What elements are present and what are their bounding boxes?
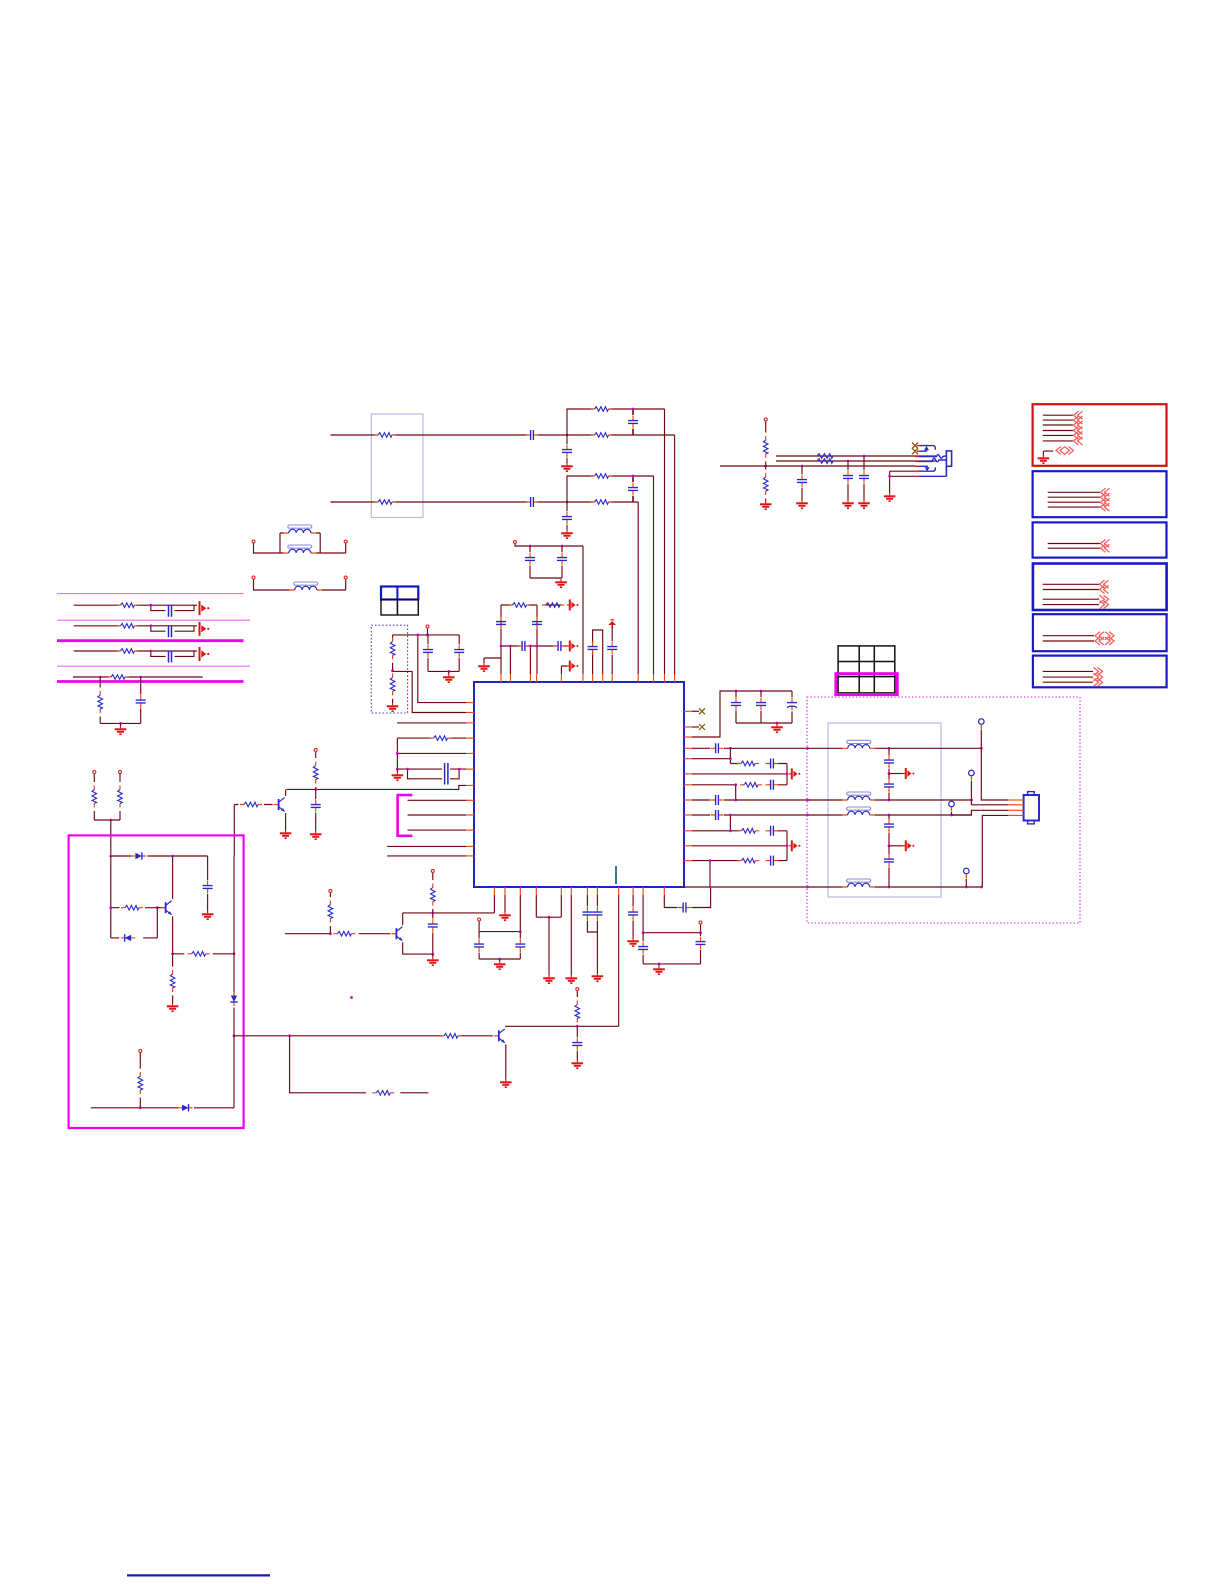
jack sleeve row (915, 475, 918, 477)
power pin VDD6 (576, 988, 579, 991)
capacitor C48 (169, 625, 172, 637)
node J1 (566, 434, 569, 437)
wire pin B10 (632, 895, 634, 907)
transistor Q1 (274, 798, 285, 812)
wire pin L8 (408, 799, 467, 801)
wire right vertical (233, 856, 235, 996)
bus line E (57, 680, 244, 683)
power pin VDD7 (431, 870, 434, 873)
capacitor C44 (863, 456, 865, 470)
resistor R7 (509, 603, 531, 608)
ground (499, 959, 501, 961)
power pin VDD9 (478, 918, 481, 921)
jack contact row1 (917, 445, 920, 447)
capacitor C6 shunt (566, 502, 568, 511)
capacitor C24 (628, 907, 638, 920)
wire xtal network (501, 605, 561, 674)
power arrow AVDD (608, 620, 616, 630)
resistor R35 (116, 624, 138, 629)
table 2x2 (381, 587, 418, 600)
reference divider dashed box (371, 625, 407, 713)
power pin VDD1 (514, 541, 517, 544)
wire cap bottoms (736, 722, 792, 724)
capacitor C16 (315, 789, 317, 799)
wire pin L12 (387, 855, 466, 857)
capacitor C37 (766, 856, 779, 866)
wire bus1 (981, 730, 1008, 801)
wire pin L11 (387, 845, 466, 847)
diode D4 (178, 1104, 193, 1111)
port P8 (199, 601, 201, 615)
wire diode row (111, 855, 208, 857)
resistor R32 (392, 635, 394, 640)
capacitor C17 (207, 856, 209, 880)
wire down (233, 1036, 235, 1108)
wire RC row G (692, 830, 787, 832)
resistor R18 (440, 1034, 462, 1039)
resistor R22 base (285, 933, 390, 935)
port P7 (889, 845, 903, 847)
ground (167, 1003, 179, 1011)
wire IC pin stubs left (466, 702, 474, 704)
inductor FB1 pair (252, 540, 255, 543)
wire base vertical (233, 805, 235, 857)
wire rc row 3 (74, 651, 197, 656)
test point TP1 (979, 719, 985, 729)
power pin VDD10 (699, 921, 702, 924)
ground (448, 671, 450, 674)
connector block J6 (blue) (1033, 656, 1167, 688)
inductor FB2 (284, 545, 316, 553)
connector block J2 (blue) (1033, 471, 1167, 517)
capacitor C15 big (445, 763, 448, 785)
power pin VDD8 (329, 890, 332, 893)
wire pin L4 (397, 738, 466, 769)
resistor R5 (591, 474, 613, 479)
wire pin B12 cap row (664, 887, 710, 908)
wire line1 row (567, 435, 675, 674)
inductor L2 (843, 792, 875, 800)
capacitor C39 (888, 774, 890, 780)
resistor R27 (737, 858, 759, 863)
resistor R28 (765, 422, 767, 433)
capacitor C2 (628, 416, 638, 429)
wire rc row 4 (73, 676, 203, 678)
wire Q3 emitter (505, 1044, 507, 1079)
wire vdd1 (515, 544, 583, 674)
wire line2 row (567, 502, 638, 674)
resistor R25 (740, 783, 762, 788)
ground (396, 769, 398, 772)
ground (566, 975, 578, 983)
wire row2 (808, 799, 972, 801)
resistor R17 (139, 1053, 141, 1069)
wire J4 signals (1043, 584, 1099, 604)
capacitor C27 (678, 903, 691, 913)
wire IC pin stubs bottom (493, 887, 495, 895)
capacitor C50 (140, 677, 142, 695)
jack tip contact (915, 456, 918, 458)
capacitor C4 (526, 497, 539, 507)
transistor Q2 (161, 901, 172, 915)
capacitor C12 (553, 641, 566, 651)
port P9 (199, 622, 201, 636)
wire rc row 1 (74, 605, 197, 610)
wire cap bottoms (530, 577, 562, 579)
test point TP4 (964, 868, 970, 878)
resistor R29 lower (765, 466, 767, 470)
wire Q4 collector (402, 913, 404, 925)
wire J2 signals (1048, 492, 1100, 507)
resistor R15 emitter (173, 953, 234, 955)
wire pin L7 long to Q1 (287, 785, 467, 789)
wire pin corner row (684, 886, 808, 888)
capacitor C14 (611, 625, 613, 641)
wire pin R3 cap bank (692, 691, 792, 737)
wire pin B6 (570, 895, 572, 975)
capacitor C46 (458, 635, 460, 644)
bus line C (57, 639, 244, 642)
resistor R24 (737, 761, 759, 766)
ground J1 (1043, 451, 1053, 455)
capacitor C45 (427, 635, 429, 644)
ground (387, 703, 399, 711)
ground (592, 973, 604, 981)
port P6 (889, 773, 903, 775)
resistor R4 (374, 500, 396, 505)
capacitor C18 (576, 1026, 578, 1037)
diode D3 (230, 992, 237, 1007)
capacitor C5 (628, 483, 638, 496)
connector J7 (1024, 795, 1039, 821)
power pin VDD11 (764, 418, 767, 421)
wire pin L2 (412, 671, 466, 712)
ground (202, 911, 214, 919)
capacitor C13 (588, 642, 598, 655)
ground (478, 663, 490, 671)
resistor R20 (576, 991, 578, 997)
resistor R26 (737, 829, 759, 834)
capacitor C25 (642, 933, 644, 941)
wire pin R11 port (692, 831, 787, 861)
ground (858, 500, 870, 508)
wire pin R5 (692, 748, 730, 763)
table 3x3 (838, 646, 895, 693)
capacitor C21 (519, 932, 521, 939)
wire line1 branch up (567, 409, 665, 674)
ground (760, 501, 772, 509)
diode D1 (131, 852, 146, 859)
inductor FB3 (252, 576, 255, 579)
ground (796, 500, 808, 508)
resistor R33 (390, 673, 395, 695)
wire row4 bottom (100, 722, 141, 724)
wire bottom row (501, 645, 567, 647)
wire rc row 2 (74, 626, 197, 631)
output filter dotted box (807, 697, 1080, 923)
resistor R23 (329, 893, 331, 897)
resistor R37 (107, 675, 129, 680)
wire pin L6 cap loop (397, 769, 466, 779)
wire line2 (330, 501, 567, 503)
capacitor C1 (526, 430, 539, 440)
ground (776, 723, 778, 724)
resistor R38 down (99, 677, 101, 688)
bus line D (57, 665, 250, 667)
ground (499, 912, 511, 920)
title block line (127, 1574, 270, 1576)
resistor R10 (315, 752, 317, 758)
port P1 (567, 600, 578, 611)
ground (658, 964, 660, 966)
capacitor C9 (496, 617, 506, 630)
resistor R16 down (172, 954, 174, 967)
wire pin2 jog (971, 800, 1008, 805)
capacitor C31 (711, 743, 724, 753)
wire left vertical (110, 856, 112, 938)
capacitor C38 (888, 748, 890, 755)
capacitor C43 (847, 461, 849, 470)
ground (627, 938, 639, 946)
wire pin R8 row (692, 785, 808, 800)
capacitor C29 (760, 691, 762, 697)
wire tp2 (970, 781, 972, 800)
wire tp3 (951, 812, 953, 815)
wire row3 (808, 814, 972, 816)
resistor R2 (591, 407, 613, 412)
wire pin B7 B8 caps (587, 895, 597, 907)
capacitor C23 (592, 907, 602, 920)
wire pullup join (94, 819, 120, 821)
jack ring contact (915, 460, 918, 462)
magenta bracket (398, 795, 413, 836)
capacitor C40 (888, 815, 890, 819)
resistor R14 (111, 907, 158, 909)
wire pin4 (982, 815, 1008, 887)
resistor R6 (591, 500, 613, 505)
wire IC pin B9 vertical (618, 895, 620, 1026)
node J2 (566, 501, 569, 504)
resistor R8 (542, 603, 564, 608)
wire RC row I (692, 861, 787, 887)
port P2 (567, 641, 578, 652)
capacitor C19 (432, 913, 434, 919)
power pin VDD4 (119, 771, 122, 774)
connector block J5 (blue) (1033, 614, 1167, 651)
wire pin L5 (397, 752, 466, 754)
bus line A (57, 593, 244, 595)
wire J5 signals (1043, 636, 1094, 641)
stray net dot (350, 996, 353, 999)
wire cap bottom (643, 963, 700, 965)
capacitor C20 (478, 932, 480, 939)
resistor R36 (116, 649, 138, 654)
ground (555, 579, 567, 587)
test point TP3 (949, 801, 955, 811)
wire IC pin stubs top (500, 674, 502, 682)
resistor R12 (93, 774, 95, 782)
capacitor C41 (888, 846, 890, 854)
ground branch (484, 658, 501, 663)
wire pin L1 (418, 635, 466, 703)
power pin VDD2 (314, 749, 317, 752)
protection block box (69, 835, 244, 1128)
wire pin L9 (408, 814, 467, 816)
wire pin R9 row (692, 815, 808, 831)
wire row1 (808, 747, 982, 749)
wire divider top (393, 634, 460, 636)
ground (561, 463, 573, 471)
ground (572, 1060, 584, 1068)
port P5 (789, 840, 800, 851)
capacitor C10 (532, 617, 542, 630)
wire cap bottom (479, 958, 520, 960)
wire pin L3 (397, 722, 466, 724)
jack switch contact row5 (915, 470, 918, 472)
wire pin B3 net (479, 895, 520, 932)
highlight row (836, 674, 897, 695)
capacitor C33 (766, 780, 779, 790)
resistor R9 (430, 736, 452, 741)
port P10 (199, 647, 201, 661)
wire pin3 jog (952, 810, 1009, 815)
wire Q4 emitter (403, 942, 433, 954)
wire to IC pins (510, 646, 530, 674)
capacitor C22 (582, 907, 592, 920)
wire divider tap (393, 670, 413, 672)
capacitor C7 (529, 546, 531, 552)
transistor Q3 (494, 1029, 505, 1043)
capacitor C8 (561, 546, 563, 552)
wire pin R1 nc (692, 710, 699, 712)
inductor L4 (843, 879, 875, 887)
wire base link (157, 908, 165, 938)
wire line1 (330, 434, 567, 436)
ground (543, 975, 555, 983)
wire line2 branch up (567, 476, 654, 674)
ground (310, 831, 322, 839)
wire pin B4 B5 (536, 895, 561, 917)
port P3 (567, 661, 578, 672)
resistor R11 base (234, 804, 272, 806)
wire long net (290, 1035, 493, 1037)
jack main switch arm (915, 465, 918, 467)
wire pin L10 (408, 829, 467, 831)
wire Q1 collector (285, 789, 287, 796)
wire out right (234, 1035, 290, 1037)
capacitor C35 (711, 810, 724, 820)
ground (561, 530, 573, 538)
node box input filter block (371, 414, 423, 518)
wire branch down (290, 1036, 429, 1093)
bus line B (57, 619, 250, 621)
resistor R19 (372, 1091, 394, 1096)
wire RC row B (730, 763, 787, 765)
wire pin B1 net (403, 895, 495, 913)
wire Q3 collector (506, 1026, 619, 1027)
wire RC row D (692, 784, 787, 786)
resistor R1 (374, 433, 396, 438)
ground (500, 1079, 512, 1087)
power pin VDD5 (139, 1050, 142, 1053)
resistor R34 (116, 603, 138, 608)
inner filter box (828, 723, 941, 897)
wire J3 signals (1048, 544, 1100, 549)
power pin VDD3 (93, 771, 96, 774)
wire audio L (776, 455, 936, 457)
transistor Q4 (391, 927, 402, 941)
capacitor C42 (801, 466, 803, 474)
inductor L1 (843, 740, 875, 748)
port P4 (789, 768, 800, 779)
wire bottom row (91, 1107, 234, 1109)
wire pin R2 nc (692, 726, 699, 728)
wire J1 signals (1043, 415, 1073, 441)
connector block J4 (blue) (1033, 564, 1167, 611)
wire jack switch rows (890, 471, 916, 493)
test point TP2 (969, 770, 975, 780)
wire IC pin stubs right (684, 710, 692, 712)
connector J8 headphone jack (946, 451, 951, 466)
wire row4 (808, 886, 982, 888)
capacitor C47 (169, 605, 172, 617)
ground (884, 493, 896, 501)
capacitor C11 (517, 641, 530, 651)
connector block J1 (red) (1033, 404, 1167, 466)
wire audio R (776, 460, 936, 462)
resistor R13 (119, 774, 121, 782)
wire connector stubs (1008, 799, 1024, 801)
resistor R21 (432, 873, 434, 880)
jack contact row2 switch arrow (917, 450, 920, 452)
capacitor C3 shunt (566, 435, 568, 444)
ground (432, 954, 434, 957)
power pin VDD12 (426, 625, 429, 628)
wire J6 signals (1043, 671, 1093, 682)
resistor R31 (817, 459, 833, 464)
diode D2 (121, 934, 136, 941)
ground (120, 723, 122, 726)
capacitor C30 polarized (791, 691, 793, 697)
wire pin cap net (593, 630, 603, 674)
capacitor C34 (711, 795, 724, 805)
wire pin B11 net (643, 895, 700, 933)
wire Q2 emitter (172, 916, 174, 954)
capacitor C28 (735, 691, 737, 697)
capacitor C26 (700, 933, 702, 936)
capacitor C36 (766, 826, 779, 836)
capacitor C49 (169, 651, 172, 663)
wire pin B2 (504, 895, 506, 912)
op-amp U1 main controller IC (474, 682, 684, 887)
wire Q2 collector (172, 856, 174, 899)
capacitor C32 (766, 759, 779, 769)
wire Q1 emitter (285, 813, 287, 830)
wire pin R6 port (692, 764, 787, 785)
connector block J3 (blue) (1033, 522, 1167, 557)
ground (280, 830, 292, 838)
resistor R30 (817, 454, 833, 459)
wire cap bottom (428, 670, 459, 672)
resistor R3 (591, 433, 613, 438)
wire pin R4 row (692, 747, 808, 749)
ground (842, 500, 854, 508)
wire main audio (720, 465, 915, 467)
inductor L3 (843, 807, 875, 815)
